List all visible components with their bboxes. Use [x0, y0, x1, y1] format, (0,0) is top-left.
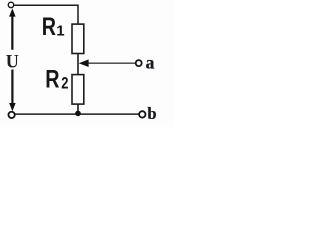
- svg-text:1: 1: [56, 23, 64, 40]
- svg-text:2: 2: [61, 75, 68, 93]
- svg-text:b: b: [147, 104, 156, 123]
- svg-text:a: a: [146, 52, 155, 72]
- svg-text:U: U: [6, 51, 19, 73]
- svg-text:R: R: [42, 13, 56, 41]
- svg-text:R: R: [45, 65, 59, 93]
